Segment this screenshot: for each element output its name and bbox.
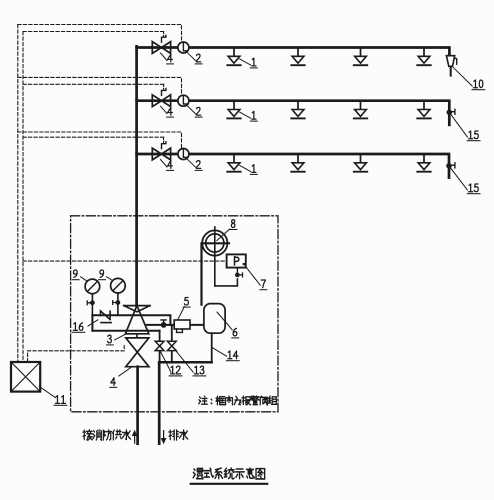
sprinkler head floor 2 #1 <box>233 102 235 110</box>
wire dashed signal to flow indicator floor 2 <box>18 77 182 95</box>
wire dashed signal to valve floor 3 <box>23 136 164 138</box>
sprinkler head floor 1 #3 <box>360 49 362 57</box>
label 2 floor 1 <box>196 54 200 62</box>
wire valve 12 riser <box>159 331 161 363</box>
label 12 <box>171 366 175 374</box>
valve 4 signal butterfly valve floor 2 <box>152 95 170 107</box>
main control valve 4 below alarm valve <box>126 338 149 352</box>
sprinkler head floor 3 #2 <box>297 155 299 163</box>
check valve 16 <box>101 311 111 320</box>
label 8 <box>231 220 235 228</box>
label 1 floor 3 <box>252 165 256 173</box>
label 4 floor 2 <box>168 107 173 115</box>
wire dashed trunk B <box>22 32 24 362</box>
sprinkler head floor 1 #4 <box>423 49 425 57</box>
sprinkler head floor 2 #4 <box>423 102 425 110</box>
valve 4 signal butterfly valve floor 1 <box>152 42 170 54</box>
sprinkler head floor 2 #2 <box>297 102 299 110</box>
water motor alarm 8 <box>214 227 216 286</box>
label 9 first <box>74 270 78 277</box>
wire branch pipe floor 2 <box>137 101 450 125</box>
label 1 floor 1 <box>252 58 256 66</box>
wire pipe 14 <box>211 333 213 362</box>
pressure gauge 9 #1 <box>91 294 93 316</box>
text supply 接消防供水 <box>83 430 92 440</box>
end test valve 15 #2 <box>447 164 451 168</box>
valve 4 signal butterfly valve floor 3 <box>152 148 170 160</box>
sprinkler head floor 3 #3 <box>360 155 362 163</box>
sprinkler head floor 1 #1 <box>233 49 235 57</box>
label 4 floor 1 <box>168 54 173 62</box>
label 2 floor 3 <box>196 161 200 169</box>
title 湿式系统示意图 <box>193 468 203 478</box>
pressure switch 7 <box>227 254 246 267</box>
wire dashed signal to valve floor 2 <box>23 83 164 85</box>
pressure gauge 9 #2 <box>117 293 119 315</box>
valve 12 <box>155 341 164 350</box>
wire dashed pressure switch signal <box>23 260 226 262</box>
test cock on P3 <box>161 323 166 328</box>
wire valve 13 riser <box>171 325 173 362</box>
label 1 floor 2 <box>252 111 256 119</box>
wire drain pipe <box>158 362 161 443</box>
wire pressure switch tee <box>215 279 238 286</box>
wire gauge manifold lower P2 <box>92 330 159 332</box>
strainer 5 <box>174 320 190 329</box>
wire gauge manifold connector <box>91 315 93 330</box>
label 14 <box>228 351 232 359</box>
label 2 floor 2 <box>196 107 200 115</box>
sprinkler head floor 2 #3 <box>360 102 362 110</box>
arrow drain down <box>162 431 166 443</box>
wire dashed signal to valve floor 1 <box>23 31 164 33</box>
label 10 <box>473 80 477 88</box>
label 6 <box>233 328 237 335</box>
wire branch pipe floor 1 <box>137 48 450 56</box>
note text 注框内为报警阀组 <box>199 396 208 404</box>
wire alarm outlet P3 <box>147 324 204 326</box>
alarm valve group frame box <box>71 216 278 412</box>
wire drain collector <box>159 361 212 364</box>
flow indicator 2 floor 1 <box>178 42 189 53</box>
flow indicator 2 floor 3 <box>178 149 189 160</box>
cock below pressure switch <box>236 267 238 273</box>
sprinkler head floor 1 #2 <box>297 49 299 57</box>
label 4 bottom <box>111 378 116 386</box>
sprinkler head floor 3 #1 <box>233 155 235 163</box>
wire gauge manifold upper P1 <box>92 315 170 325</box>
delay chamber 6 <box>204 304 225 334</box>
text drain 排水 <box>169 430 178 440</box>
label 4 floor 3 <box>168 161 173 169</box>
label 7 <box>261 280 265 288</box>
label 11 <box>55 396 59 404</box>
wire branch pipe floor 3 <box>137 154 449 178</box>
label 15 #2 <box>469 184 473 192</box>
wire riser main vertical pipe <box>135 46 138 305</box>
label 5 <box>184 297 188 305</box>
wire supply pipe <box>136 367 139 444</box>
wire dashed trunk A <box>17 25 19 362</box>
label 16 <box>73 323 77 331</box>
wire dashed signal valve group <box>28 346 125 362</box>
label 13 <box>194 366 198 374</box>
arrow supply up <box>133 431 137 443</box>
fire control panel 11 <box>11 362 40 392</box>
end device 10 automatic exhaust valve <box>446 56 454 67</box>
wet alarm valve 3 <box>124 305 150 307</box>
label 9 second <box>100 270 104 277</box>
wire dashed signal to flow indicator floor 3 <box>18 132 182 149</box>
title underline <box>191 483 267 485</box>
label 15 #1 <box>469 131 473 139</box>
sprinkler head floor 3 #4 <box>423 155 425 163</box>
flow indicator 2 floor 2 <box>178 95 189 106</box>
label 3 <box>108 335 112 343</box>
wire dashed signal to flow indicator floor 1 <box>18 25 182 43</box>
end test valve 15 #1 <box>447 110 451 114</box>
wire bell feed pipe <box>202 243 230 304</box>
valve 13 <box>167 341 176 350</box>
